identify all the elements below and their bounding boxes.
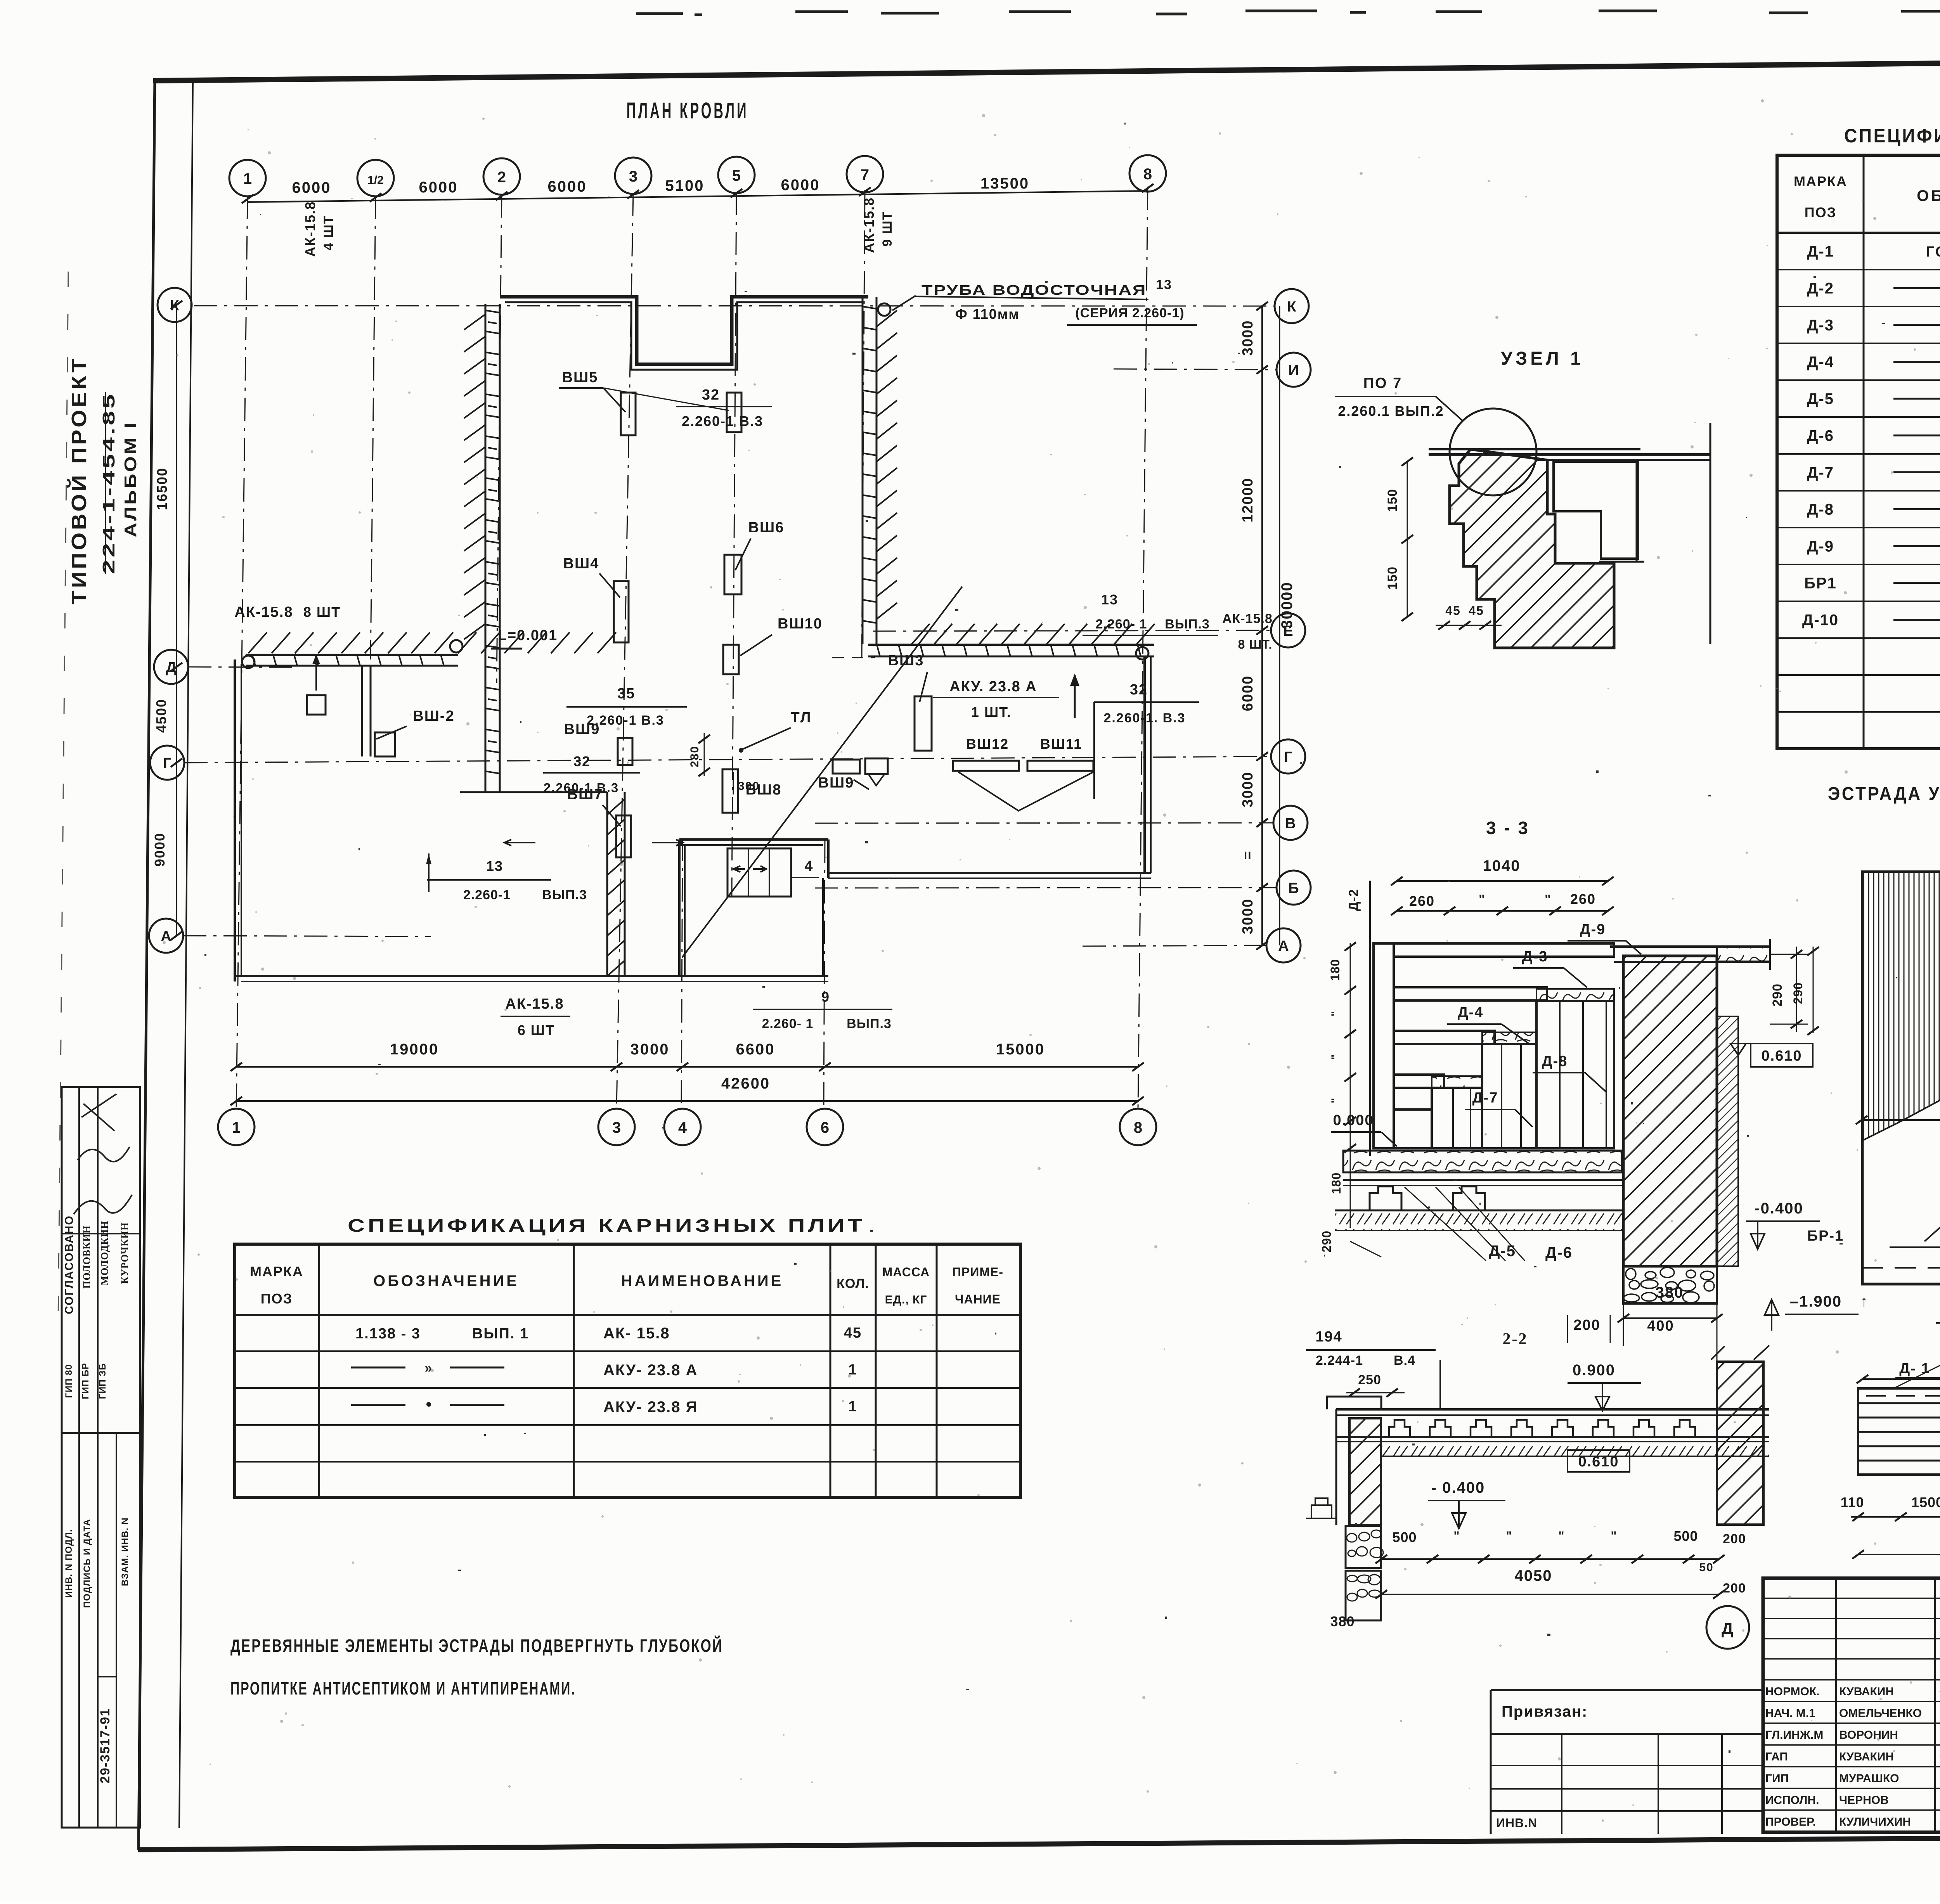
shaft VSh5 rect a [621,393,636,435]
uzel detail circle [1450,408,1536,495]
svg-text:8 ШТ: 8 ШТ [303,604,341,620]
right wing parapet band with brick ticks [868,644,1154,646]
uzel step inner white box [1554,462,1638,559]
right wing shaft VSh3 [915,696,932,751]
svg-text:Д-1: Д-1 [1807,243,1834,260]
svg-text:ПОЛОВКИН: ПОЛОВКИН [81,1225,92,1288]
grid circle 1 [229,160,266,196]
svg-text:В: В [1285,815,1296,832]
bottom grid dimension line 1 [236,1066,1138,1068]
svg-text:ГАП: ГАП [1765,1750,1788,1763]
svg-text:АКУ- 23.8 А: АКУ- 23.8 А [603,1362,698,1379]
dim 290 right rotated [1757,947,1758,1024]
svg-text:7: 7 [861,166,869,183]
base line and ground hatch 3-3 [1335,1210,1623,1212]
drain funnel circles [878,303,890,316]
right vertical dim chain line [1261,306,1263,945]
svg-text:Д-5: Д-5 [1489,1243,1516,1260]
svg-text:6: 6 [821,1119,829,1136]
svg-text:2.260- 1: 2.260- 1 [1096,617,1147,632]
svg-text:ВЫП. 1: ВЫП. 1 [472,1326,529,1342]
lower-left inner wall stub [361,666,363,756]
stage plan bottom double line [1862,1283,1940,1285]
svg-text:Д-2: Д-2 [1807,280,1834,297]
stage plan outer outline [1862,872,1940,1284]
svg-text:6000: 6000 [292,179,331,196]
svg-text:ВШ9: ВШ9 [564,721,600,737]
svg-text:3: 3 [629,168,637,185]
row circle right Б [1277,871,1311,905]
svg-text:30000: 30000 [1278,582,1296,628]
left paper edge dashed artifact [58,272,68,1319]
svg-text:260: 260 [1409,893,1435,909]
svg-text:224-1-454.85: 224-1-454.85 [99,392,118,574]
svg-text:ГИП ЗБ: ГИП ЗБ [97,1363,108,1399]
svg-text:АК-15.8: АК-15.8 [505,996,564,1012]
small chip hatch patches on step tops [1536,989,1614,1000]
row circle right И [1277,353,1311,387]
slab 2-2 top lines [1336,1408,1769,1411]
title block vertical lines left part [1835,1578,1837,1832]
svg-text:250: 250 [1358,1373,1381,1387]
svg-text:ПОДЛИСЬ И ДАТА: ПОДЛИСЬ И ДАТА [82,1519,92,1608]
svg-text:180: 180 [1328,959,1342,981]
svg-text:Д-2: Д-2 [1346,889,1361,911]
svg-text:ЧАНИЕ: ЧАНИЕ [955,1292,1001,1306]
bottom grid dimension line 2 [236,1100,1138,1102]
svg-text:0.000: 0.000 [1333,1112,1374,1129]
svg-text:6 ШТ: 6 ШТ [518,1022,555,1038]
svg-text:ВЫП.3: ВЫП.3 [1165,617,1210,632]
svg-text:Привязан:: Привязан: [1502,1703,1588,1720]
svg-text:": " [1545,892,1552,907]
svg-text:32: 32 [573,753,591,769]
svg-text:АК-15.8: АК-15.8 [302,201,318,257]
svg-text:2: 2 [497,169,506,186]
up arrow right wing [1074,675,1076,718]
svg-text:12000: 12000 [1240,478,1256,523]
brick wall column 3-3 hatched [1623,956,1717,1266]
diag leaders on band [1893,1360,1940,1388]
svg-text:ПОЗ: ПОЗ [1805,204,1836,220]
svg-text:200: 200 [1723,1581,1746,1596]
svg-text:45: 45 [1445,604,1461,618]
svg-text:150: 150 [1385,489,1400,512]
frame left border [139,80,155,1850]
svg-text:280: 280 [688,746,701,767]
uzel hatched stepped cornice [1450,449,1614,648]
left vertical line of 3-3 dims [1369,881,1371,1156]
spec table rows [1777,269,1940,270]
title block left row lines [1763,1598,1940,1599]
svg-text:ПО 7: ПО 7 [1363,375,1403,391]
svg-text:0.900: 0.900 [1573,1362,1615,1379]
svg-text:2.260- 1: 2.260- 1 [762,1016,814,1031]
svg-text:ИНВ.N: ИНВ.N [1496,1816,1537,1830]
svg-text:19000: 19000 [390,1041,439,1058]
svg-text:МОЛОДКИН: МОЛОДКИН [99,1221,110,1286]
svg-text:260: 260 [1570,891,1596,907]
svg-text:": " [1329,1054,1342,1060]
svg-text:3000: 3000 [1240,320,1256,356]
spec table outer rect [1777,155,1940,749]
svg-text:КУВАКИН: КУВАКИН [1839,1685,1894,1698]
svg-text:200: 200 [1573,1317,1600,1333]
svg-text:500: 500 [1673,1528,1698,1544]
row circle right К [1275,289,1309,323]
leader lines to D-5 D-6 [1405,1187,1486,1261]
svg-text:5: 5 [732,167,741,184]
svg-text:3000: 3000 [1240,898,1256,935]
frame top border [153,57,1940,81]
stage plan inner bottom dashed line [1862,1267,1940,1269]
right outer chain 30000 [1279,306,1280,945]
grid circle bottom 1 [218,1109,255,1145]
funnel below slats [958,772,1093,811]
row circle left А [149,919,183,953]
svg-text:АЛЬБОМ I: АЛЬБОМ I [121,421,140,537]
svg-text:": " [1329,1097,1342,1103]
svg-text:А: А [161,928,171,945]
grid circle 7 [847,156,883,192]
svg-text:9000: 9000 [152,833,168,867]
svg-text:↑: ↑ [1860,1293,1869,1310]
svg-text:Г: Г [1284,749,1292,765]
svg-text:Ф 110мм: Ф 110мм [955,306,1020,322]
grid circle 2 [483,158,520,195]
svg-text:29-3517-91: 29-3517-91 [98,1708,113,1783]
svg-text:8: 8 [1134,1119,1142,1136]
bleacher steps outline [1374,943,1394,1148]
svg-text:6600: 6600 [736,1041,775,1058]
svg-text:ГОСТ 24454- 80Е: ГОСТ 24454- 80Е [1926,244,1940,260]
slat VSh12 [953,761,1019,771]
svg-text:": " [1453,1529,1460,1543]
svg-text:32: 32 [1130,682,1148,698]
right wall column 2-2 hatched [1717,1362,1763,1525]
svg-text:42600: 42600 [721,1075,770,1092]
svg-text:УЗЕЛ 1: УЗЕЛ 1 [1501,348,1584,369]
svg-text:Д-8: Д-8 [1542,1053,1568,1070]
svg-text:50: 50 [1699,1561,1713,1574]
shaft VSh10 rect [723,645,739,674]
roof slab top right of 3-3 [1610,945,1770,948]
svg-text:1040: 1040 [1483,857,1521,874]
uzel dims 150 150 [1407,462,1408,617]
svg-text:ВШ4: ВШ4 [563,556,599,572]
svg-text:ГЛ.ИНЖ.М: ГЛ.ИНЖ.М [1765,1729,1823,1741]
svg-text:0.610: 0.610 [1761,1048,1802,1064]
svg-text:ГИП: ГИП [1765,1772,1789,1785]
frame bottom border [138,1835,1940,1850]
svg-text:": " [1506,1529,1512,1543]
svg-text:СПЕЦИФИКАЦИЯ КАРНИЗНЫХ П: СПЕЦИФИКАЦИЯ КАРНИЗНЫХ ПЛИТ [348,1215,865,1236]
svg-text:2.244-1: 2.244-1 [1316,1353,1363,1368]
svg-text:МАРКА: МАРКА [250,1264,303,1279]
svg-text:4050: 4050 [1515,1567,1552,1584]
uzel roof double line [1429,448,1640,450]
svg-text:Д-4: Д-4 [1807,354,1834,371]
svg-text:ОБОЗНАЧЕНИЕ: ОБОЗНАЧЕНИЕ [373,1272,519,1290]
svg-text:13: 13 [1101,592,1118,608]
ground chip hatch under slab 2-2 [1381,1443,1769,1456]
center block outline [679,838,828,841]
svg-text:9: 9 [821,989,830,1005]
svg-text:Д: Д [1722,1619,1734,1637]
svg-text:": " [1479,892,1486,907]
svg-text:–1.900: –1.900 [1790,1293,1842,1310]
left bottom stamp boxes [62,1087,140,1828]
svg-text:МАССА: МАССА [882,1265,930,1279]
floor boards lines [1343,1179,1622,1181]
svg-text:»: » [425,1361,433,1376]
grid circle 1/2 [357,160,394,196]
vertical post left of 2-2 [1439,1360,1441,1410]
svg-text:КУВАКИН: КУВАКИН [1839,1750,1894,1763]
grid circle 3 [615,158,651,194]
level 0.610 box 2-2 [1568,1450,1630,1472]
svg-text:6000: 6000 [419,179,458,196]
svg-text:Д-8: Д-8 [1807,501,1834,518]
svg-text:Д-3: Д-3 [1522,949,1548,965]
left wall 2-2 hatched column [1349,1418,1381,1525]
svg-text:ВШ7: ВШ7 [567,786,603,803]
row circle right Г [1271,739,1305,774]
frame inner left margin line [179,81,193,1828]
floor support stools [1370,1186,1401,1210]
long diagonal leader line [682,587,962,957]
svg-text:Д-6: Д-6 [1545,1244,1573,1261]
svg-text:Д-4: Д-4 [1458,1004,1484,1021]
svg-text:290: 290 [1791,982,1805,1004]
spec table header bottom line [1777,232,1940,234]
upper block right wall band with brick ticks [862,297,864,644]
svg-text:6000: 6000 [781,177,820,194]
shaft VSh9 rect upper [618,738,632,765]
step treads and stacks [1394,943,1614,1148]
svg-text:НАЧ. М.1: НАЧ. М.1 [1765,1707,1815,1720]
svg-text:Д-5: Д-5 [1807,391,1834,408]
svg-text:Д-9: Д-9 [1580,921,1606,938]
left corner box 2-2 [1327,1397,1381,1409]
svg-text:8: 8 [1143,166,1152,183]
svg-text:КУРОЧКИН: КУРОЧКИН [119,1222,130,1284]
svg-text:И: И [1288,362,1299,379]
shaft VSh4 rect [614,581,629,642]
svg-text:Б: Б [1288,880,1299,897]
svg-text:ПЛАН КРОВЛИ: ПЛАН КРОВЛИ [627,98,749,123]
svg-text:380: 380 [1656,1284,1684,1301]
svg-text:380: 380 [1330,1613,1355,1629]
small rect near TL [833,760,860,774]
rubble foundation 3-3 [1623,1266,1717,1303]
svg-text:АК-15.8: АК-15.8 [861,197,877,253]
svg-text:ИСПОЛН.: ИСПОЛН. [1765,1794,1819,1807]
svg-text:ВЗАМ. ИНВ. N: ВЗАМ. ИНВ. N [120,1517,130,1586]
svg-text:ПРОВЕР.: ПРОВЕР. [1765,1816,1816,1828]
lower-left wing parapet band with brick ticks [246,654,458,656]
row circle left К [158,288,192,322]
right wing left vertical connector [827,839,830,878]
svg-text:ЕД., КГ: ЕД., КГ [885,1293,927,1306]
grid circle bottom 8 [1120,1109,1156,1145]
svg-text:3 - 3: 3 - 3 [1486,818,1529,838]
svg-text:2.260-1 В.3: 2.260-1 В.3 [682,413,763,429]
title block outer rect [1763,1578,1940,1832]
privyazan table [1491,1689,1763,1691]
svg-text:СОГЛАСОВАНО: СОГЛАСОВАНО [63,1215,76,1314]
svg-text:МУРАШКО: МУРАШКО [1839,1772,1899,1785]
vertical grid axis lines dash-dot [236,196,248,1109]
svg-text:ВЫП.3: ВЫП.3 [542,888,587,902]
svg-text:6000: 6000 [1240,675,1256,711]
grid circle bottom 4 [664,1109,701,1145]
svg-text:НАИМЕНОВАНИЕ: НАИМЕНОВАНИЕ [621,1272,784,1290]
shaft VSh9 lower with label [865,758,888,774]
detail circle D [1706,1606,1749,1649]
svg-text:Д-10: Д-10 [1802,612,1839,629]
svg-text:ТРУБА ВОДОСТОЧНАЯ: ТРУБА ВОДОСТОЧНАЯ [921,282,1147,298]
ledge stool outside left wall 2-2 [1306,1498,1336,1518]
svg-text:ЧЕРНОВ: ЧЕРНОВ [1839,1794,1889,1807]
roof vent square upper [307,695,326,715]
svg-text:К: К [1287,299,1296,315]
svg-text:-0.400: -0.400 [1755,1200,1803,1217]
svg-text:ОМЕЛЬЧЕНКО: ОМЕЛЬЧЕНКО [1839,1707,1922,1720]
svg-text:": " [1611,1529,1617,1543]
svg-text:0.610: 0.610 [1578,1454,1619,1470]
row circle right Е [1271,613,1305,647]
board band 1-1 [1858,1388,1940,1475]
svg-text:1.138 - 3: 1.138 - 3 [355,1326,421,1342]
svg-text:ОБОЗНАЧЕНИЕ: ОБОЗНАЧЕНИЕ [1917,187,1940,204]
svg-text:АКУ. 23.8 А: АКУ. 23.8 А [949,679,1037,695]
slat VSh11 [1027,761,1093,771]
svg-text:1500: 1500 [1911,1494,1940,1510]
svg-text:- 0.400: - 0.400 [1431,1479,1485,1496]
level 0.610 box [1751,1044,1813,1067]
svg-text:ВШ12: ВШ12 [966,736,1009,752]
svg-text:13500: 13500 [980,175,1029,192]
svg-text:110: 110 [1840,1494,1864,1510]
svg-text:180: 180 [1329,1172,1343,1194]
svg-text:ПОЗ: ПОЗ [261,1291,293,1307]
svg-text:290: 290 [1320,1231,1334,1252]
svg-text:В.4: В.4 [1394,1353,1415,1368]
shaft VSh6 rect [724,555,741,594]
svg-text:1 ШТ.: 1 ШТ. [971,704,1012,720]
svg-text:4: 4 [804,858,813,874]
svg-text:1: 1 [243,170,252,187]
svg-text:ТИПОВОЙ ПРОЕКТ: ТИПОВОЙ ПРОЕКТ [67,356,91,604]
svg-text:Д-7: Д-7 [1472,1090,1498,1106]
svg-text:Д-7: Д-7 [1807,464,1834,481]
svg-text:2.260.1 ВЫП.2: 2.260.1 ВЫП.2 [1338,403,1444,419]
svg-text:ДЕРЕВЯННЫЕ ЭЛЕМЕНТЫ ЭСТРАДЫ: ДЕРЕВЯННЫЕ ЭЛЕМЕНТЫ ЭСТРАДЫ ПОДВЕРГНУТЬ … [230,1636,723,1656]
svg-text:1/2: 1/2 [367,174,384,187]
grid circle 5 [718,157,755,193]
svg-text:БР-1: БР-1 [1807,1228,1844,1244]
svg-text:2-2: 2-2 [1503,1330,1528,1348]
svg-text:НОРМОК.: НОРМОК. [1765,1685,1820,1698]
svg-text:400: 400 [1647,1318,1674,1334]
stool row on slab [1389,1420,1410,1437]
svg-text:=: = [1240,850,1256,860]
svg-text:13: 13 [486,858,503,874]
svg-text:8 ШТ.: 8 ШТ. [1238,637,1273,651]
svg-text:ВШ6: ВШ6 [748,519,785,536]
svg-text:2.260-1: 2.260-1 [463,888,511,902]
shaft VSh7 rect [616,815,631,857]
svg-text:Д-6: Д-6 [1807,428,1834,445]
floor chip band 3-3 [1343,1151,1622,1172]
cornice table outer rect [235,1244,1020,1497]
svg-text:ПРИМЕ-: ПРИМЕ- [952,1265,1003,1279]
svg-text:ВШ11: ВШ11 [1040,736,1082,752]
hatch above right wing parapet [912,624,1155,644]
svg-text:АКУ- 23.8 Я: АКУ- 23.8 Я [603,1399,698,1416]
svg-text:16500: 16500 [154,467,170,510]
row circle left Г [150,746,184,780]
row axis dash-dot lines [194,306,1275,306]
slab bottom boards 2-2 [1336,1436,1769,1438]
ground dashes below 3-3 [1350,1241,1381,1257]
svg-text:АК-15.8: АК-15.8 [234,604,293,620]
junction arrows [504,839,535,846]
top grid dimension line [248,191,1148,202]
grid circle bottom 6 [807,1109,843,1145]
grid circle bottom 3 [598,1109,635,1145]
grid circle 8 [1129,155,1166,192]
horiz line at mid junction [460,791,607,793]
svg-text:4500: 4500 [153,699,169,733]
cornice header bottom [235,1314,1020,1316]
svg-text:ПРОПИТКЕ АНТИСЕПТИКОМ И АНТ: ПРОПИТКЕ АНТИСЕПТИКОМ И АНТИПИРЕНАМИ. [230,1678,576,1698]
svg-text:ВШ3: ВШ3 [888,653,924,669]
rubble piers below left wall 2-2 [1346,1526,1381,1568]
hatch right of right wall [876,310,897,619]
right wing bottom edge double [828,872,1151,874]
grid dimension ticks top [242,195,253,203]
svg-text:500: 500 [1392,1529,1417,1545]
svg-text:2.260-1. В.3: 2.260-1. В.3 [1103,711,1185,725]
svg-text:БР1: БР1 [1804,575,1837,592]
svg-text:СПЕЦИФИКАЦИЯ МАТЕРИАЛОВ НА: СПЕЦИФИКАЦИЯ МАТЕРИАЛОВ НА ИНДИВИДУАЛЬНЫ… [1844,125,1940,147]
svg-text:КОЛ.: КОЛ. [837,1276,869,1291]
svg-text:35: 35 [617,685,635,702]
upper block left wall band with brick ticks [485,304,487,792]
cornice table rows [235,1350,1020,1352]
svg-text:13: 13 [1156,277,1172,292]
level -1.900 3-3 [1765,1300,1779,1331]
mid vertical wall hatched [606,792,608,976]
hatch above lower-left parapet [248,632,616,653]
svg-text:ВОРОНИН: ВОРОНИН [1839,1729,1898,1741]
spec table column lines [1863,155,1865,749]
svg-text:Д-9: Д-9 [1807,538,1834,555]
svg-text:АК- 15.8: АК- 15.8 [603,1325,670,1342]
svg-text:Г: Г [163,755,171,772]
svg-text:Д- 1: Д- 1 [1899,1360,1930,1377]
svg-text:": " [1558,1529,1565,1543]
right dim chain ticks [1256,302,1268,310]
svg-text:3000: 3000 [1240,772,1256,808]
svg-text:3: 3 [612,1119,621,1136]
paper top-edge scan dashes [636,10,1940,15]
svg-text:ЭСТРАДА УЧЕБНО-СПОРТИВНОГО З: ЭСТРАДА УЧЕБНО-СПОРТИВНОГО ЗАЛА [1828,784,1940,804]
left dim chain [176,305,177,936]
svg-text:ГИП БР: ГИП БР [80,1363,91,1399]
